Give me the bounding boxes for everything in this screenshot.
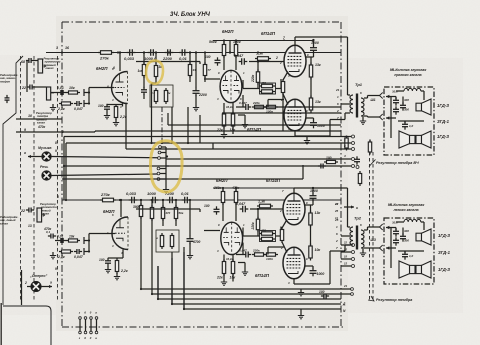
wire box L mid h: [398, 250, 424, 252]
border pin bottom y266: [341, 265, 351, 267]
resistor box L2: [170, 233, 173, 249]
wire coil left L: [396, 221, 404, 223]
resistor 10к input L: [66, 239, 80, 242]
wire screen v7: [305, 204, 313, 206]
arrow terminal bottom: [386, 116, 396, 119]
wire anode link: [119, 67, 121, 72]
capacitor 0,01 input: [58, 90, 66, 95]
wire coupling L to grid: [250, 208, 284, 210]
wire conn right y159: [166, 158, 169, 160]
ground output cathode: [304, 137, 310, 144]
resistor 220к rowL2: [252, 253, 266, 256]
capacitor 0,01 bottom: [182, 197, 191, 204]
resistor tone chain 2: [368, 140, 371, 155]
resistor 220к fbL1 (vertical): [256, 217, 259, 233]
wire stage2L rail: [213, 187, 312, 189]
resistor 13к screenL: [309, 211, 312, 228]
resistor 22к V6: [222, 259, 225, 276]
node bottom after R: [119, 199, 121, 201]
arrow terminal bottom L: [386, 246, 396, 249]
cap bar input end: [83, 89, 85, 96]
wire bottom return x184 v: [183, 247, 185, 309]
wire bottom return h y299: [158, 298, 341, 300]
capacitor 0,047 rowL2: [243, 252, 251, 258]
capacitor 1000 screen bottom: [310, 120, 317, 129]
border pin y289: [341, 288, 351, 290]
arrow to регулятор bottom: [368, 296, 374, 301]
woofer speaker right: [416, 131, 431, 148]
junction dot (188,143): [187, 142, 189, 144]
junction dot (141,289): [140, 288, 142, 290]
wire dropper L x163: [162, 200, 164, 207]
junction dot (258,61.5): [257, 60, 259, 62]
capacitor 0,047 input: [74, 101, 82, 106]
connector mid vertical: [165, 147, 167, 186]
capacitor 2200 on top bus: [165, 49, 174, 56]
yellow highlight ellipse (connector): [150, 141, 182, 192]
wire fbL mid left: [243, 235, 260, 237]
cathode bias resistor output: [281, 79, 284, 95]
junction dot (236,40.5): [235, 39, 237, 41]
wire top lower y113: [222, 112, 341, 114]
resistor 220к fb1 (vertical): [256, 69, 259, 85]
wire mid y179: [62, 178, 303, 180]
border pin y136: [341, 136, 351, 138]
junction dot (151.5,143): [150, 142, 152, 144]
wire screen v4: [306, 117, 314, 119]
border pin bottom y259: [341, 258, 351, 260]
junction dot (313,188): [312, 187, 314, 189]
transformer Tr1: [350, 94, 364, 118]
crossover coil in box: [404, 88, 421, 91]
capacitor 1000,0 on top bus: [148, 49, 157, 56]
chassis border left (dash-dot): [61, 22, 63, 327]
wire secondary bottom out L: [364, 247, 380, 249]
wire dropper L x152: [151, 200, 153, 207]
connector stub 1: [161, 146, 166, 148]
connector stub 4: [160, 168, 166, 170]
wire rowL2 left: [236, 254, 243, 256]
wire coil left: [396, 90, 404, 92]
capacitor 0,047 row2: [243, 104, 251, 110]
wire bottom bus B+: [62, 199, 341, 201]
chevron secondary bottom L: [380, 245, 383, 251]
node x151: [155, 51, 157, 53]
node bus x141: [143, 51, 145, 53]
wire bottom return x158 v: [157, 266, 159, 299]
wire mid vert x126: [125, 103, 127, 149]
resistor tone chain 1: [345, 136, 348, 151]
resistor 2,7к input L: [59, 250, 73, 253]
junction dot (64,166): [63, 165, 65, 167]
capacitor 100 V5: [105, 258, 111, 266]
wire cathodes joinL a: [282, 220, 287, 229]
capacitor 100 grid V1: [104, 104, 110, 112]
junction dot bottom bus x121: [120, 199, 122, 201]
arrow terminal top L: [386, 226, 396, 229]
resistor 2,7к input: [59, 102, 73, 105]
junction dot bottom bus x163: [162, 199, 164, 201]
page edge line: [0, 303, 2, 345]
capacitor mid right: [318, 164, 326, 169]
wire 360k top L: [222, 188, 224, 192]
wire box v1: [395, 97, 397, 100]
wire 100k down: [235, 56, 237, 71]
junction dot (152,294): [151, 293, 153, 295]
resistor 470к midL a: [259, 232, 275, 235]
connector pin 1 mid: [159, 146, 162, 149]
front-panel dashed line x20: [20, 56, 22, 302]
junction dot top bus x156: [155, 51, 157, 53]
resistor 1M dropper: [142, 62, 145, 78]
front-panel dashed line x34: [33, 56, 35, 302]
resistor 470к stage2L: [234, 189, 237, 205]
resistor 18к under V2: [231, 112, 234, 129]
wire vert x172 to y143: [171, 107, 173, 143]
wire mid y143 drop: [65, 143, 67, 200]
wire mid vert x303: [302, 165, 304, 179]
resistor 3к dropper (highlighted): [154, 63, 157, 79]
ground stage2 b: [242, 121, 248, 128]
junction dot top bus x230: [229, 51, 231, 53]
wire dropper L x176: [175, 200, 177, 207]
node after R270k: [117, 51, 119, 53]
junction dot bottom bus x152: [151, 199, 153, 201]
ground below y309: [298, 312, 304, 319]
chassis border top (dash-dot): [62, 21, 341, 23]
wire node to grid L: [89, 233, 115, 235]
wire cathodes join a: [283, 72, 288, 81]
wire box L v2: [402, 228, 404, 236]
pentode V8 output: [283, 247, 305, 279]
wire stage2 top rail: [213, 40, 312, 42]
resistor screen2: [309, 96, 312, 113]
wire fbL1 bottom: [257, 230, 259, 236]
ground cap100: [104, 112, 110, 119]
wire L x163 down: [162, 219, 164, 226]
node fb1 top: [257, 60, 259, 62]
wire V3 plate up: [294, 37, 296, 45]
resistor 360к stage2L: [221, 189, 224, 205]
board outline bottom-left: [3, 306, 51, 345]
ground L x190: [187, 252, 193, 259]
wire fb mid left: [243, 88, 260, 90]
node bottom bus left: [65, 199, 67, 201]
junction dot bottom bus x190: [189, 199, 191, 201]
resistor in box 1: [154, 88, 157, 104]
wire grid node vertical: [88, 88, 90, 104]
capacitor 100 stage2: [215, 57, 221, 65]
resistor 470к mid box a: [259, 84, 275, 87]
wire box mid h: [398, 120, 424, 122]
connector pin 5 mid: [157, 172, 160, 175]
cathode bias resistor outputL: [280, 227, 283, 243]
resistor tone chain 3: [358, 171, 361, 186]
resistor L x176: [174, 205, 177, 221]
cap 300b in box: [400, 102, 406, 110]
junction dot (184,309): [183, 308, 185, 310]
wire rowL2 join up: [267, 247, 269, 255]
wire screen chainL: [310, 205, 312, 213]
capacitor x141: [141, 87, 147, 95]
node rail x313: [312, 39, 314, 41]
wire bottom return h y304: [172, 303, 341, 305]
junction dot (89,92.5): [88, 91, 90, 93]
wire dashdot vert x162: [161, 107, 163, 143]
junction dot (258,209): [257, 208, 259, 210]
ground R cathode V1: [113, 119, 119, 126]
wire 22кL gnd: [223, 274, 225, 279]
resistor 1,3к coupling L: [257, 204, 273, 208]
wire fb1 bottom: [257, 83, 259, 89]
wire dropper x141: [143, 53, 145, 65]
border pin y166: [341, 165, 351, 167]
box decoupling L: [156, 230, 179, 252]
wire V5 cathode: [122, 250, 124, 259]
wire gndL b link: [244, 263, 246, 269]
resistor 18к V6: [231, 259, 234, 276]
junction dot (224,40.5): [223, 39, 225, 41]
front-panel dashed line x57: [57, 56, 59, 302]
resistor in box 2: [164, 88, 167, 104]
resistor 77 dropper: [203, 62, 206, 78]
triode V1a (half): [112, 72, 128, 104]
arrow a out: [28, 155, 42, 158]
wire V8 plate right: [294, 283, 330, 285]
wire 470k down L: [235, 203, 237, 222]
wire Tr1 center tap stub: [341, 103, 350, 105]
junction dot (89,103.5): [88, 102, 90, 104]
woofer speaker left (mirrored): [399, 131, 415, 148]
junction dot bottom bus x176: [175, 199, 177, 201]
wire screen chain: [310, 57, 312, 65]
resistor 13к screen: [309, 63, 312, 80]
junction dot top bus x258: [257, 51, 259, 53]
resistor 220к row2: [252, 105, 266, 108]
resistor 22к under V2: [222, 112, 225, 129]
node fbL1 top: [257, 208, 259, 210]
resistor screen2L: [309, 244, 312, 261]
wire top lower y107: [255, 106, 341, 108]
pin tone chain: [356, 166, 359, 169]
pentode V4 output: [284, 99, 306, 131]
connector plane dashed a: [369, 152, 371, 300]
node stage2 riser: [229, 51, 231, 53]
wire 360k down L: [222, 203, 224, 222]
wire scr bot: [313, 118, 315, 121]
capacitor 0,033 bottom: [129, 197, 138, 204]
wire mid y166: [64, 165, 341, 167]
arrow stereo right: [41, 285, 52, 288]
wire dropper L x190: [189, 200, 191, 236]
chassis border bottom (dash-dot): [62, 326, 345, 328]
coupling cap 68 input: [26, 58, 34, 63]
node bus x196: [195, 51, 197, 53]
wire dropper x191: [204, 53, 206, 65]
capacitor 0,01 on top bus: [179, 49, 188, 56]
wire mid y149: [126, 148, 341, 150]
wire dropper x196 down: [195, 53, 197, 89]
wire top lower y131: [95, 130, 341, 132]
wire V4 plate down: [294, 131, 296, 136]
capacitor 1000 screen topL: [310, 193, 317, 202]
chassis border right (dash-dot): [340, 22, 342, 327]
resistor 470к midL b: [259, 237, 275, 240]
ground input L: [50, 252, 56, 259]
capacitor 0,047 coupling L: [240, 206, 249, 213]
wire V5 anode to bus: [120, 200, 122, 212]
pentode V7 output: [283, 193, 305, 225]
resistor 270к bottom bus: [100, 198, 116, 202]
junction dot (89,251.5): [88, 250, 90, 252]
wire lamp1 to connector: [51, 157, 158, 158]
wire V4 plate right: [295, 135, 330, 137]
node anode bus: [119, 51, 121, 53]
junction dot top bus x169: [168, 51, 170, 53]
wire x191 tail: [204, 76, 206, 82]
wire 18кL down: [232, 274, 234, 282]
wire rowL2 vert x243: [242, 243, 244, 255]
wire V8 plate rise: [329, 251, 331, 284]
wire top bus B+ (right channel): [46, 52, 341, 54]
wire 100k top: [235, 41, 237, 45]
cap 300b in box L: [400, 233, 406, 241]
connector stub 2: [161, 152, 166, 154]
wire box L v1: [395, 228, 397, 231]
connector pin 3 mid: [158, 157, 161, 160]
wire x196 to gnd: [195, 95, 197, 104]
resistor 36к dropper: [188, 62, 191, 78]
triode V5a (half): [112, 217, 128, 250]
capacitor 2200 shunt: [193, 88, 200, 97]
junction dot (236,188): [235, 187, 237, 189]
cap 1,0 box: [402, 121, 408, 129]
coupling wire L: [136, 208, 200, 210]
lamp Музыка: [42, 152, 51, 161]
ground stage2 a: [221, 131, 227, 138]
wire x141 down: [143, 76, 145, 88]
wire V4 plate rise: [329, 120, 331, 137]
wire dropper L x141: [140, 200, 142, 205]
resistor 470к mid box b: [259, 90, 275, 93]
wire fb right: [276, 88, 282, 90]
wire mid y143: [66, 142, 341, 144]
box fbL mid: [260, 231, 276, 242]
wire box v2: [402, 97, 404, 105]
ground Tr1 secondary: [360, 118, 366, 125]
ground V5 res: [114, 273, 120, 280]
wire V8 plate down: [293, 279, 295, 284]
wire rowL2 y247 to grid V8: [268, 246, 284, 248]
wire box left rail: [390, 97, 392, 139]
wire V4 to primary bottom: [330, 119, 345, 121]
wire mid vert x188: [187, 107, 189, 143]
node railL x313: [312, 187, 314, 189]
board outline top-left: [3, 56, 23, 305]
resistor 100п row2: [264, 105, 278, 108]
wire x313 to rail: [313, 40, 315, 46]
wire x151 down long: [151, 83, 153, 143]
wire top lower y125: [168, 124, 341, 126]
tweeter speaker 1ГД-3 top: [416, 99, 431, 115]
capacitor 0,047 input L: [74, 249, 82, 254]
junction dot top bus x144: [143, 51, 145, 53]
junction dot (162,143): [161, 142, 163, 144]
wire tone chain 2 top: [369, 140, 371, 143]
speaker box left channel (dash-dot): [384, 218, 434, 284]
wire V6 cath a: [223, 255, 225, 262]
cap 300c in box: [393, 106, 399, 114]
wire cathodes join b: [283, 94, 288, 105]
wire fb1 top: [257, 62, 259, 72]
capacitor 0,1 left: [48, 234, 56, 239]
resistor 1,3к coupling: [255, 57, 271, 61]
wire bottom return h y294: [152, 293, 341, 295]
wire Tr2 bottom stub: [344, 245, 346, 251]
junction dot (313,40.5): [312, 39, 314, 41]
wire dropper x178: [189, 53, 191, 65]
resistor L x152: [150, 205, 153, 221]
resistor box L1: [160, 233, 163, 249]
capacitor 0,033 on top bus: [127, 49, 136, 56]
junction dot top bus x190: [189, 51, 191, 53]
ground V6 b: [242, 269, 248, 276]
wire plate V3 into primary: [348, 94, 351, 96]
wire vert x200: [199, 115, 201, 143]
wire pot left drop: [26, 61, 28, 93]
cap 300a in box L: [393, 228, 399, 236]
junction dot top bus x205: [204, 51, 206, 53]
wire V8 to primary bottom: [330, 250, 345, 252]
wire 560k top: [223, 41, 225, 45]
triode V6 phase inverter: [221, 222, 243, 254]
wire input row join: [35, 86, 46, 88]
triode V2 phase inverter: [220, 70, 242, 102]
connector stub 5: [160, 173, 166, 175]
border pin y143: [341, 142, 351, 144]
junction dot bottom bus x141: [140, 199, 142, 201]
wire screen chainL2: [310, 225, 312, 247]
chevron secondary bottom: [380, 114, 383, 120]
speaker box right channel (dash-dot): [384, 87, 434, 155]
ground connector: [163, 186, 169, 193]
wire stereo left: [27, 286, 31, 288]
wire row2 vert x243: [242, 95, 244, 107]
woofer speaker L left (mirrored): [399, 261, 415, 278]
cap bar input end2: [83, 100, 85, 107]
wire secondary top out: [364, 97, 368, 99]
wire L x141 down: [140, 217, 142, 289]
wire cathode V1: [122, 104, 124, 107]
wire pot wiper to RC row: [51, 92, 58, 94]
junction dot (167,156.5): [166, 155, 168, 157]
wire bus 10: [16, 118, 62, 120]
pentode V3 output: [284, 45, 306, 77]
wire L x152 down: [151, 219, 153, 294]
wire scr botL: [312, 266, 314, 269]
wire tone chain 1 top: [346, 136, 348, 139]
wire V2 cath b: [232, 103, 234, 114]
ground V5 cap: [105, 266, 111, 273]
wire coil right: [421, 90, 424, 92]
capacitor 1000 screen top: [310, 45, 317, 54]
resistor 100к stage2: [234, 42, 237, 58]
crossover coil in box L: [404, 219, 421, 222]
wire node to tube grid: [89, 87, 114, 89]
wire pot top to cap: [33, 60, 38, 62]
wire gnd b link: [244, 115, 246, 121]
resistor 2,2к cathode V1: [114, 104, 117, 120]
